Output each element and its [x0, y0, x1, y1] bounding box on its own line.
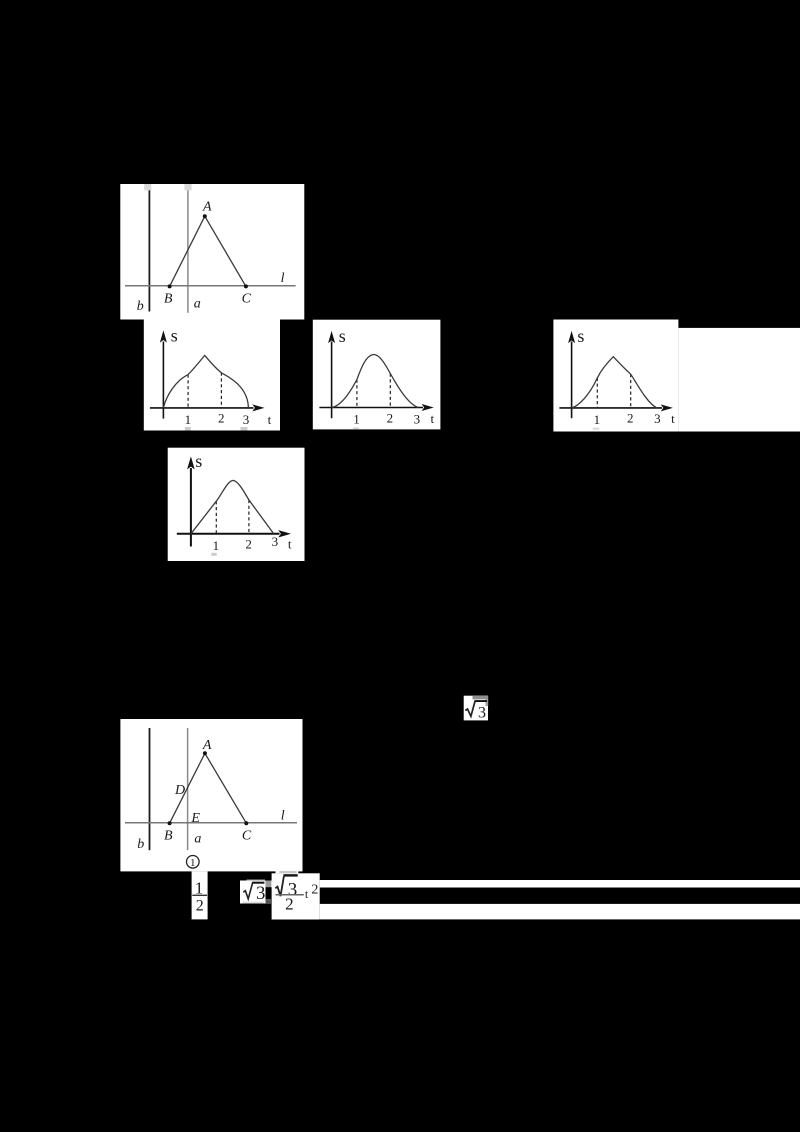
svg-text:s: s — [195, 451, 202, 471]
graph B x-axis — [319, 407, 423, 409]
graph B x-axis arrowhead — [422, 404, 434, 411]
standalone sqrt3 grey bar — [473, 696, 489, 699]
figure 2 vertical line a — [187, 728, 189, 850]
svg-text:2: 2 — [285, 895, 294, 914]
standalone sqrt3 radical stroke — [465, 701, 475, 716]
figure 1 grey cap on line a — [184, 184, 191, 190]
svg-text:a: a — [194, 297, 201, 312]
svg-text:t: t — [671, 411, 675, 426]
svg-text:t: t — [430, 411, 434, 426]
svg-text:B: B — [164, 292, 173, 307]
graph A grey mark under 3 — [240, 427, 247, 431]
formula sqrt vinculum — [283, 874, 297, 876]
svg-text:3: 3 — [243, 412, 250, 427]
small sqrt3 light grey bottom edge — [243, 902, 264, 904]
svg-text:b: b — [137, 837, 144, 852]
svg-text:E: E — [190, 811, 200, 826]
graph C x-axis arrowhead — [661, 404, 673, 411]
right white strip lower — [320, 904, 800, 920]
figure 1 horizontal line l — [125, 285, 296, 287]
formula white tab above — [276, 870, 299, 873]
graph C dashed line at t=1 — [596, 378, 598, 408]
figure 1 triangle ABC — [170, 216, 246, 286]
figure 2 vertical line b — [149, 728, 151, 850]
svg-text:1: 1 — [353, 411, 360, 426]
svg-text:1: 1 — [185, 412, 192, 427]
graph A dashed line at t=1 — [187, 375, 189, 408]
small sqrt3 vinculum — [252, 882, 264, 884]
figure 2 horizontal line l — [125, 822, 297, 824]
graph C curve — [572, 357, 657, 408]
one-half fraction bar — [192, 895, 207, 896]
svg-text:C: C — [242, 828, 252, 843]
svg-text:D: D — [174, 783, 185, 798]
graph C white box right part — [678, 328, 800, 432]
svg-text:2: 2 — [387, 411, 394, 426]
graph B y-axis arrowhead — [328, 331, 335, 343]
svg-text:l: l — [281, 271, 285, 286]
grey artifact right of sqrt3 box (upper) — [266, 881, 272, 888]
figure 2 vertex dot C — [244, 821, 248, 825]
formula white box sqrt3 over 2 t squared — [272, 873, 320, 919]
svg-text:s: s — [577, 326, 584, 346]
graph C y-axis arrowhead — [568, 331, 575, 343]
svg-text:t: t — [288, 537, 292, 552]
small sqrt3 light grey top edge — [247, 880, 265, 882]
svg-text:l: l — [281, 809, 285, 824]
circled 1 badge — [187, 856, 200, 869]
svg-text:a: a — [194, 831, 201, 846]
right white strip upper — [320, 880, 800, 888]
graph B white box — [313, 320, 441, 430]
svg-text:C: C — [242, 292, 252, 307]
small sqrt3 radical stroke — [243, 883, 253, 899]
svg-text:s: s — [339, 326, 346, 346]
svg-text:2: 2 — [311, 882, 318, 897]
one-half white strip — [192, 871, 208, 919]
svg-text:1: 1 — [594, 412, 601, 427]
graph A white box — [144, 320, 280, 431]
svg-text:1: 1 — [190, 857, 196, 869]
graph C grey mark under 1 — [593, 428, 599, 431]
svg-text:1: 1 — [213, 538, 220, 553]
graph B dashed line at t=2 — [389, 374, 391, 408]
graph C x-axis — [559, 407, 662, 409]
figure 1 vertical line b — [148, 190, 150, 311]
svg-text:A: A — [202, 738, 212, 753]
figure 1 white box — [120, 184, 304, 320]
formula light grey strip in tab — [279, 871, 296, 873]
graph A dashed line at t=2 — [220, 373, 222, 408]
svg-text:3: 3 — [414, 411, 421, 426]
svg-text:b: b — [137, 299, 144, 314]
grey artifact right of sqrt3 box (lower) — [266, 899, 272, 904]
figure 1 vertex dot B — [168, 284, 172, 288]
svg-text:3: 3 — [654, 411, 661, 426]
standalone sqrt3 vinculum — [475, 700, 487, 702]
graph A y-axis arrowhead — [160, 330, 167, 342]
svg-text:2: 2 — [196, 898, 204, 915]
figure 2 triangle ABC — [170, 753, 247, 823]
graph D dashed line at t=2 — [248, 500, 250, 534]
graph D curve — [191, 480, 274, 533]
figure 2 white box — [120, 719, 302, 871]
graph C dashed line at t=2 — [630, 374, 632, 408]
graph D white box — [168, 448, 305, 561]
svg-text:3: 3 — [256, 884, 265, 904]
svg-text:2: 2 — [245, 537, 252, 552]
formula fraction bar — [276, 894, 304, 896]
figure 2 vertex dot B — [168, 821, 172, 825]
graph A x-axis arrowhead — [252, 404, 264, 411]
graph D grey mark under 1 — [211, 553, 217, 556]
graph D dashed line at t=1 — [215, 501, 217, 534]
graph C white box left part — [553, 320, 678, 432]
svg-text:B: B — [164, 828, 173, 843]
graph B grey mark under 1 — [353, 428, 359, 430]
figure 1 vertex dot A — [203, 214, 207, 218]
graph B y-axis — [331, 342, 333, 419]
svg-text:t: t — [268, 412, 272, 427]
svg-text:2: 2 — [218, 410, 225, 425]
graph A grey mark under 1 — [185, 427, 191, 431]
svg-text:3: 3 — [478, 705, 486, 722]
graph B bell curve — [332, 354, 418, 407]
figure 1 grey cap on line b — [144, 184, 151, 190]
graph C y-axis — [571, 342, 573, 419]
svg-text:s: s — [171, 325, 178, 345]
svg-text:3: 3 — [272, 534, 279, 549]
graph D x-axis — [177, 533, 280, 535]
figure 1 vertical line a — [187, 190, 189, 312]
graph D x-axis arrowhead — [278, 530, 291, 537]
svg-text:A: A — [202, 200, 212, 215]
standalone sqrt3 white box — [464, 696, 488, 721]
formula sqrt radical stroke — [275, 876, 284, 896]
graph D y-axis arrowhead — [187, 456, 195, 469]
svg-text:2: 2 — [627, 410, 634, 425]
standalone sqrt3 grey side — [486, 699, 489, 706]
small sqrt3 white box (formula) — [240, 881, 266, 904]
grey artifact right of sqrt3 box (upper light) — [271, 881, 276, 888]
graph A x-axis — [150, 407, 254, 409]
figure 2 vertex dot A — [203, 751, 207, 755]
figure 1 vertex dot C — [244, 284, 248, 288]
graph B dashed line at t=1 — [356, 380, 358, 408]
graph D y-axis — [190, 468, 192, 547]
graph A y-axis — [162, 342, 164, 419]
graph A curve — [163, 355, 248, 408]
